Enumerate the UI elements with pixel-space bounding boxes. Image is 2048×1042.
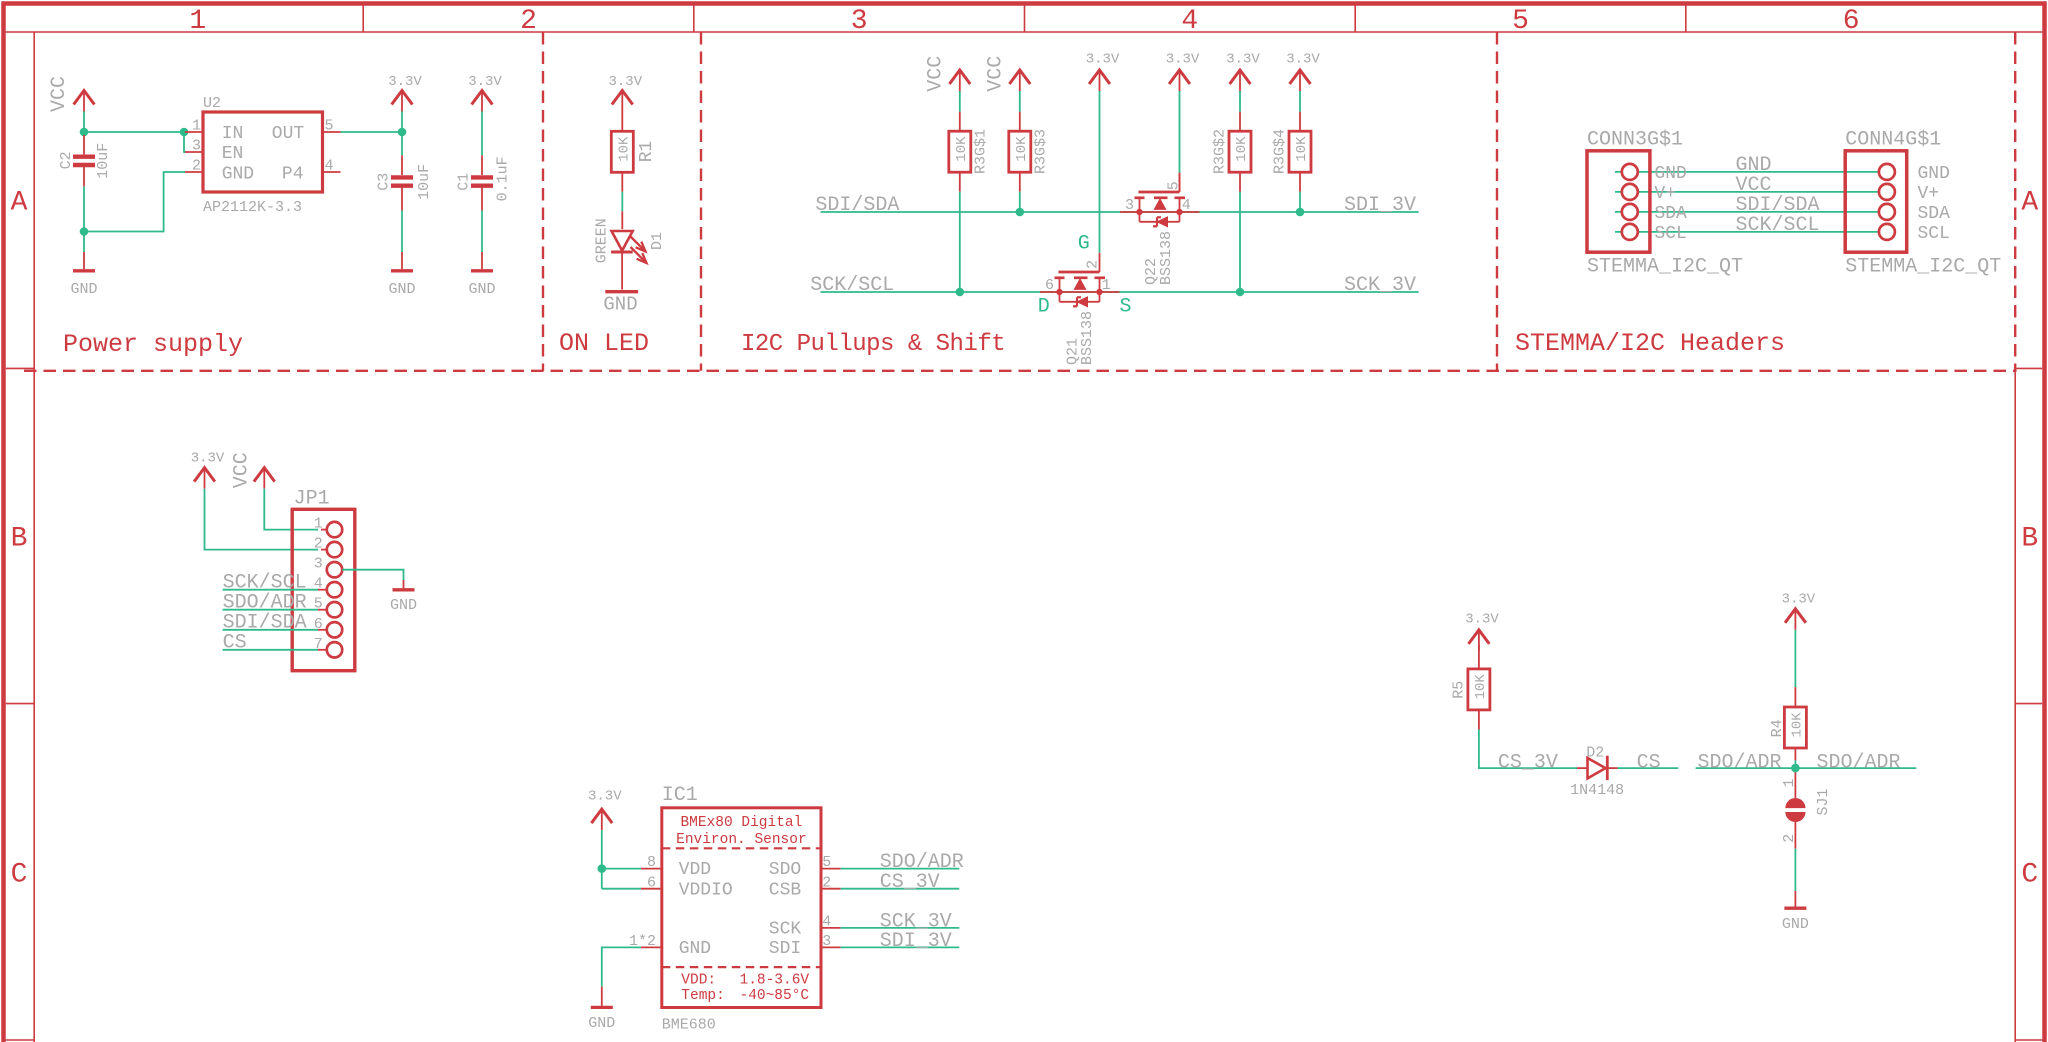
svg-text:GND: GND xyxy=(388,281,415,298)
svg-text:SDO: SDO xyxy=(769,860,801,880)
svg-text:3.3V: 3.3V xyxy=(1465,612,1499,628)
svg-text:R3G$3: R3G$3 xyxy=(1032,129,1049,174)
svg-text:SJ1: SJ1 xyxy=(1815,788,1832,815)
svg-text:CSB: CSB xyxy=(769,880,802,900)
svg-text:10K: 10K xyxy=(1790,712,1806,738)
svg-text:SDI: SDI xyxy=(769,939,801,959)
svg-text:R3G$1: R3G$1 xyxy=(972,129,989,174)
svg-text:C2: C2 xyxy=(58,151,75,169)
svg-text:BME680: BME680 xyxy=(662,1017,716,1034)
svg-text:3.3V: 3.3V xyxy=(588,789,622,805)
svg-text:1N4148: 1N4148 xyxy=(1570,782,1624,799)
svg-text:D2: D2 xyxy=(1586,744,1604,761)
svg-text:6: 6 xyxy=(1843,6,1860,37)
svg-text:B: B xyxy=(11,524,28,555)
svg-text:G: G xyxy=(1078,232,1090,255)
svg-text:R3G$2: R3G$2 xyxy=(1212,129,1229,174)
svg-text:10K: 10K xyxy=(1473,674,1489,700)
svg-text:VDD:: VDD: xyxy=(681,973,716,989)
svg-text:5: 5 xyxy=(1512,6,1529,37)
svg-text:GND: GND xyxy=(1654,164,1686,184)
svg-text:1: 1 xyxy=(314,516,323,533)
svg-text:3.3V: 3.3V xyxy=(608,74,642,90)
svg-text:10uF: 10uF xyxy=(95,143,112,179)
svg-text:2: 2 xyxy=(192,158,201,175)
svg-text:SCK/SCL: SCK/SCL xyxy=(810,274,894,297)
svg-text:CONN3G$1: CONN3G$1 xyxy=(1587,129,1683,152)
svg-text:10K: 10K xyxy=(954,136,970,162)
svg-text:3.3V: 3.3V xyxy=(1086,52,1120,68)
svg-text:3.3V: 3.3V xyxy=(468,74,502,90)
svg-text:V+: V+ xyxy=(1654,184,1676,204)
svg-text:8: 8 xyxy=(647,854,656,871)
svg-text:SDI/SDA: SDI/SDA xyxy=(815,194,899,217)
svg-text:P4: P4 xyxy=(282,165,304,185)
svg-text:R4: R4 xyxy=(1769,719,1786,737)
svg-text:5: 5 xyxy=(325,118,334,135)
svg-text:IC1: IC1 xyxy=(662,784,698,807)
svg-text:JP1: JP1 xyxy=(294,488,330,511)
svg-text:3.3V: 3.3V xyxy=(388,74,422,90)
svg-text:GND: GND xyxy=(1918,164,1950,184)
svg-text:3.3V: 3.3V xyxy=(1226,52,1260,68)
svg-text:BMEx80 Digital: BMEx80 Digital xyxy=(680,815,802,831)
svg-text:SDO/ADR: SDO/ADR xyxy=(1817,751,1901,774)
svg-text:GND: GND xyxy=(588,1015,615,1032)
svg-text:A: A xyxy=(2021,188,2038,219)
svg-text:3.3V: 3.3V xyxy=(1286,52,1320,68)
svg-text:BSS138: BSS138 xyxy=(1158,231,1175,285)
svg-text:GND: GND xyxy=(1782,916,1809,933)
svg-text:VCC: VCC xyxy=(230,452,253,488)
svg-text:R5: R5 xyxy=(1451,681,1468,699)
svg-text:AP2112K-3.3: AP2112K-3.3 xyxy=(203,199,302,216)
svg-text:SCL: SCL xyxy=(1654,224,1686,244)
svg-text:Environ. Sensor: Environ. Sensor xyxy=(676,832,807,848)
svg-text:VCC: VCC xyxy=(984,56,1007,92)
svg-text:3.3V: 3.3V xyxy=(1782,592,1816,608)
svg-text:GND: GND xyxy=(222,165,254,185)
svg-text:SDA: SDA xyxy=(1654,204,1687,224)
svg-text:GND: GND xyxy=(390,597,417,614)
svg-text:3: 3 xyxy=(1125,197,1134,214)
svg-text:SCK: SCK xyxy=(769,919,802,939)
svg-text:STEMMA_I2C_QT: STEMMA_I2C_QT xyxy=(1587,255,1743,278)
svg-text:R3G$4: R3G$4 xyxy=(1272,129,1289,174)
svg-text:VDD: VDD xyxy=(679,860,711,880)
svg-text:BSS138: BSS138 xyxy=(1079,311,1096,365)
svg-text:1: 1 xyxy=(1102,277,1111,294)
svg-text:3.3V: 3.3V xyxy=(191,451,225,467)
svg-text:SCK_3V: SCK_3V xyxy=(1344,274,1416,297)
svg-text:10K: 10K xyxy=(1234,136,1250,162)
svg-text:I2C Pullups & Shift: I2C Pullups & Shift xyxy=(741,331,1005,358)
svg-text:2: 2 xyxy=(314,536,323,553)
svg-text:S: S xyxy=(1120,296,1132,319)
svg-text:4: 4 xyxy=(1181,6,1198,37)
svg-text:4: 4 xyxy=(325,158,334,175)
svg-text:C: C xyxy=(2021,860,2038,891)
svg-text:SDI_3V: SDI_3V xyxy=(880,930,952,953)
svg-text:3.3V: 3.3V xyxy=(1166,52,1200,68)
svg-text:Power supply: Power supply xyxy=(63,330,243,359)
svg-text:SCL: SCL xyxy=(1918,224,1950,244)
svg-text:CS: CS xyxy=(1637,752,1661,775)
svg-text:2: 2 xyxy=(1085,260,1102,269)
svg-text:1: 1 xyxy=(189,6,206,37)
svg-text:SDA: SDA xyxy=(1918,204,1951,224)
svg-text:SCK/SCL: SCK/SCL xyxy=(1736,214,1820,237)
svg-text:0.1uF: 0.1uF xyxy=(495,156,512,201)
svg-text:IN: IN xyxy=(222,124,244,144)
svg-text:CS_3V: CS_3V xyxy=(1498,752,1558,775)
svg-text:CS_3V: CS_3V xyxy=(880,871,940,894)
svg-text:SDO/ADR: SDO/ADR xyxy=(1698,751,1782,774)
svg-text:6: 6 xyxy=(647,874,656,891)
svg-text:CONN4G$1: CONN4G$1 xyxy=(1845,129,1941,152)
svg-text:GREEN: GREEN xyxy=(593,218,610,263)
svg-text:10uF: 10uF xyxy=(416,164,433,200)
svg-text:STEMMA_I2C_QT: STEMMA_I2C_QT xyxy=(1845,255,2001,278)
svg-text:10K: 10K xyxy=(1294,136,1310,162)
svg-text:B: B xyxy=(2021,524,2038,555)
svg-text:EN: EN xyxy=(222,144,244,164)
svg-text:C: C xyxy=(11,860,28,891)
svg-text:U2: U2 xyxy=(203,95,221,112)
svg-text:C1: C1 xyxy=(456,173,473,191)
svg-text:1: 1 xyxy=(192,118,201,135)
svg-text:-40~85°C: -40~85°C xyxy=(740,988,810,1004)
svg-text:OUT: OUT xyxy=(272,124,305,144)
svg-text:C3: C3 xyxy=(376,173,393,191)
svg-text:1.8-3.6V: 1.8-3.6V xyxy=(740,973,810,989)
svg-text:R1: R1 xyxy=(637,141,657,163)
svg-text:4: 4 xyxy=(1182,197,1191,214)
svg-text:GND: GND xyxy=(679,939,711,959)
svg-text:1*2: 1*2 xyxy=(629,933,656,950)
svg-text:VCC: VCC xyxy=(48,76,71,112)
svg-text:V+: V+ xyxy=(1918,184,1940,204)
svg-text:3: 3 xyxy=(314,556,323,573)
svg-text:2: 2 xyxy=(520,6,537,37)
svg-text:A: A xyxy=(11,188,28,219)
svg-text:10K: 10K xyxy=(1014,136,1030,162)
svg-text:6: 6 xyxy=(1045,277,1054,294)
svg-text:SDI_3V: SDI_3V xyxy=(1344,194,1416,217)
svg-text:3: 3 xyxy=(192,138,201,155)
svg-text:Temp:: Temp: xyxy=(681,988,725,1004)
svg-text:1: 1 xyxy=(1781,778,1798,787)
svg-text:GND: GND xyxy=(70,281,97,298)
svg-text:VCC: VCC xyxy=(924,56,947,92)
svg-text:ON LED: ON LED xyxy=(559,329,649,358)
svg-text:VDDIO: VDDIO xyxy=(679,880,733,900)
svg-text:5: 5 xyxy=(1165,181,1182,190)
svg-text:D1: D1 xyxy=(649,232,666,250)
svg-text:D: D xyxy=(1038,296,1050,319)
svg-text:3: 3 xyxy=(851,6,868,37)
svg-text:10K: 10K xyxy=(617,136,633,162)
svg-text:STEMMA/I2C Headers: STEMMA/I2C Headers xyxy=(1515,329,1785,358)
svg-text:CS: CS xyxy=(223,632,247,655)
svg-text:GND: GND xyxy=(468,281,495,298)
svg-text:GND: GND xyxy=(603,294,637,316)
